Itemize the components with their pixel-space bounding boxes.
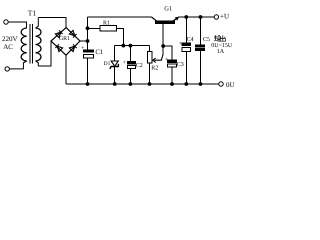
wire secondary bottom to bridge left corner: [36, 61, 39, 66]
node B junction dot: [86, 40, 89, 43]
output label 0U~15U 1A: [211, 43, 233, 55]
node A wire (D1/C2/R2): [115, 45, 150, 47]
capacitor C4: [179, 17, 194, 84]
junction dot C3 ground: [171, 83, 174, 86]
svg-text:G1: G1: [164, 6, 172, 13]
capacitor C5: [196, 17, 210, 84]
wire top rail right section: [179, 16, 214, 18]
output label "chu" (drawn glyph): [220, 35, 225, 41]
junction dot C1 ground: [86, 83, 89, 86]
junction dot C4 ground: [185, 83, 188, 86]
terminal AC bottom-left: [5, 67, 9, 71]
svg-text:C5: C5: [203, 37, 210, 43]
svg-text:AC: AC: [3, 43, 13, 51]
ground rail (bottom): [66, 83, 219, 85]
transformer T1 primary winding: [21, 28, 27, 61]
junction dot D1 ground: [113, 83, 116, 86]
svg-text:220V: 220V: [2, 35, 18, 43]
svg-text:1A: 1A: [217, 49, 225, 55]
bridge diode bottom-left: [55, 44, 62, 51]
junction dot C2 top: [129, 44, 132, 47]
wire node B vertical up to top rail: [87, 17, 89, 41]
svg-text:C1: C1: [95, 49, 103, 56]
junction dot R1 branch: [86, 27, 89, 30]
junction dot R2 ground: [148, 83, 151, 86]
bridge diode top-right: [69, 30, 76, 37]
potentiometer R2 wiper arrow: [154, 54, 163, 60]
svg-text:D1: D1: [104, 61, 111, 67]
wire primary bottom to terminal: [10, 61, 27, 69]
junction dot C3 branch on base: [162, 45, 165, 48]
label GR1: [59, 36, 70, 42]
wire secondary top to bridge top corner: [36, 18, 39, 29]
resistor R1: [88, 20, 124, 45]
svg-text:C4: C4: [187, 37, 194, 43]
transformer T1 label: [28, 8, 37, 17]
terminal +U: [214, 15, 218, 19]
capacitor C3: [163, 46, 184, 84]
label 220V AC: [2, 35, 18, 51]
transformer core: [29, 24, 31, 64]
svg-text:T1: T1: [28, 8, 37, 17]
potentiometer R2: [147, 46, 163, 84]
wire top rail left section: [88, 16, 152, 18]
transistor G1: [152, 6, 180, 54]
svg-text:0U: 0U: [226, 81, 235, 89]
terminal AC top-left: [4, 20, 8, 24]
junction dot C4 top: [185, 16, 188, 19]
wire: [8, 22, 27, 28]
junction dot R1 drop: [122, 44, 125, 47]
bridge diode top-left: [55, 30, 62, 37]
capacitor C1: [81, 41, 103, 84]
zener diode D1: [104, 46, 119, 84]
output label "shu" (drawn glyph): [214, 35, 221, 41]
junction dot C5 top: [199, 16, 202, 19]
bridge diode bottom-right: [69, 44, 76, 51]
svg-text:GR1: GR1: [59, 36, 70, 42]
bridge rectifier GR1 diamond: [51, 28, 80, 56]
capacitor C2: [123, 46, 143, 84]
junction dot C2 ground: [129, 83, 132, 86]
wire bridge right corner to node B vertical: [80, 40, 88, 42]
wire bridge bottom corner to ground rail: [65, 55, 67, 84]
transformer T1 secondary winding: [36, 28, 42, 61]
svg-text:R2: R2: [151, 66, 158, 72]
svg-text:C3: C3: [177, 62, 184, 68]
junction dot C5 ground: [199, 83, 202, 86]
terminal 0U: [219, 82, 223, 86]
svg-text:+U: +U: [220, 13, 229, 21]
svg-text:R1: R1: [103, 20, 110, 26]
svg-text:C2: C2: [136, 63, 143, 69]
